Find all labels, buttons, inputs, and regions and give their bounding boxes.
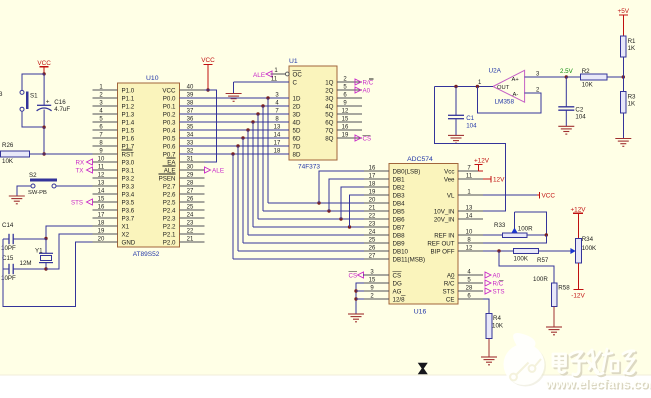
U10 pin 26 P2.5 stub [163, 196, 205, 206]
power VCC above U10 [201, 57, 215, 90]
svg-text:16: 16 [369, 165, 376, 171]
wire R33 right terminal [527, 234, 546, 236]
svg-text:74F373: 74F373 [298, 164, 320, 171]
wire U1 C to ground [233, 82, 235, 94]
wire P0.6 from U10 to U1 7D [180, 145, 290, 147]
op-amp U2A triangle [493, 70, 525, 102]
U10 pin 16 P3.6 stub [93, 204, 135, 214]
ground at R3 [615, 139, 631, 147]
svg-text:P2.0: P2.0 [163, 239, 176, 246]
svg-text:+: + [46, 99, 50, 106]
wire crystal bottom to X2 [46, 234, 93, 269]
svg-text:VCC: VCC [201, 57, 215, 64]
wire P0.1 vertical drop [262, 106, 264, 211]
wire P0.2 vertical drop [257, 114, 259, 219]
junction divider [622, 75, 625, 78]
junction C1 [454, 85, 457, 88]
svg-text:P3.7: P3.7 [122, 215, 135, 222]
R26 labels [2, 142, 14, 165]
svg-text:DB4: DB4 [393, 200, 406, 207]
ground at R58 [546, 327, 562, 335]
svg-text:20: 20 [98, 236, 105, 242]
svg-text:1D: 1D [293, 95, 301, 102]
svg-text:CS: CS [349, 272, 358, 279]
wire P0.2 from U10 to U1 3D [180, 113, 290, 115]
svg-text:15: 15 [98, 196, 105, 202]
svg-text:DB1: DB1 [393, 176, 406, 183]
wire S1 bottom [22, 111, 44, 127]
junction P0.6 [236, 144, 239, 147]
switch S2 [28, 172, 57, 196]
U10 pin 4 P1.3 stub [93, 108, 135, 118]
svg-text:R2: R2 [582, 68, 590, 75]
svg-text:R33: R33 [494, 222, 506, 229]
U16 pin 22 DB6 stub [364, 213, 405, 223]
svg-text:21: 21 [369, 205, 376, 211]
svg-text:EA: EA [167, 159, 176, 166]
svg-text:DB6: DB6 [393, 216, 406, 223]
svg-text:P3.4: P3.4 [122, 191, 135, 198]
svg-text:+5V: +5V [618, 8, 630, 15]
U1 pin 5 2Q stub [325, 84, 362, 94]
wire REF IN to R33 [483, 234, 503, 236]
svg-text:+12V: +12V [474, 157, 490, 164]
resistor R4 [486, 314, 492, 339]
junction crystal bottom [44, 267, 47, 270]
svg-text:16: 16 [342, 124, 349, 130]
svg-text:C1: C1 [466, 115, 474, 122]
svg-text:13: 13 [98, 180, 105, 186]
net label CS at U1 8Q [355, 135, 371, 143]
svg-text:ALE: ALE [164, 167, 176, 174]
U10 pin 14 P3.4 stub [93, 188, 135, 198]
svg-text:2D: 2D [293, 103, 301, 110]
U1 pin 19 8Q stub [325, 132, 362, 142]
svg-text:AG: AG [393, 288, 402, 295]
svg-text:U16: U16 [414, 309, 427, 316]
wire P0.2 to U16 DB6 [258, 218, 364, 220]
svg-text:11: 11 [271, 76, 278, 82]
svg-text:PSEN: PSEN [159, 175, 176, 182]
U16 pin 6 CE stub [446, 293, 483, 303]
svg-text:C2: C2 [575, 106, 583, 113]
svg-text:R/C: R/C [444, 280, 455, 287]
junction VCC pin40 [206, 88, 209, 91]
U10 pin 38 P0.1 stub [163, 100, 205, 110]
U1 pin 17 7D name [274, 140, 301, 150]
svg-text:P0.1: P0.1 [163, 103, 176, 110]
svg-text:P3.0: P3.0 [122, 159, 135, 166]
U1 pin 9 4Q stub [325, 100, 362, 110]
wire GND pin loop [3, 239, 93, 306]
svg-text:7D: 7D [293, 143, 301, 150]
wire P0.6 to U16 DB10 [238, 250, 364, 252]
U16 pin 21 DB5 stub [364, 205, 405, 215]
U10 pin 18 X1 stub [93, 220, 130, 230]
svg-text:16: 16 [98, 204, 105, 210]
U16 pin 17 DB1 stub [364, 173, 405, 183]
U10 pin 2 P1.1 stub [93, 92, 135, 102]
wire P0.7 vertical drop [232, 154, 234, 259]
wire R33 junction to REF OUT [483, 235, 546, 243]
svg-text:REF OUT: REF OUT [427, 240, 454, 247]
U10 pin 17 P3.7 stub [93, 212, 135, 222]
svg-text:OC: OC [293, 71, 303, 78]
power +5V [618, 8, 630, 36]
U1 pin 3 1D name [275, 92, 301, 102]
U16 pin 5 R/C stub [444, 277, 483, 287]
svg-text:U1: U1 [289, 58, 298, 65]
svg-text:C14: C14 [2, 222, 14, 229]
svg-text:P0.2: P0.2 [163, 111, 176, 118]
U1 pin 7 3D name [275, 108, 301, 118]
svg-text:P0.5: P0.5 [163, 135, 176, 142]
svg-text:14: 14 [98, 188, 105, 194]
U16 pin 9 AG stub [364, 285, 402, 295]
svg-text:P2.5: P2.5 [163, 199, 176, 206]
svg-text:12V: 12V [493, 177, 505, 184]
junction P0.1 [261, 104, 264, 107]
wire DG/AG/12-8 common [356, 283, 364, 314]
net label R/C at U16 [485, 280, 504, 288]
net label ALE at U1 [253, 71, 272, 79]
U16 pin 23 DB7 stub [364, 221, 405, 231]
power -12V below R34 [571, 290, 585, 300]
U16 pin 14 20V_IN stub [434, 213, 483, 223]
U10 pin 25 P2.4 stub [163, 204, 205, 214]
svg-text:DB8: DB8 [393, 232, 406, 239]
svg-text:CE: CE [446, 296, 455, 303]
svg-text:11: 11 [466, 173, 473, 179]
svg-text:P0.0: P0.0 [163, 95, 176, 102]
U10 pin 34 P0.5 stub [163, 132, 205, 142]
junction DB1 riser [327, 209, 330, 212]
svg-text:VL: VL [447, 192, 455, 199]
junction DB3 riser [348, 225, 351, 228]
U10 pin 20 GND stub [93, 236, 136, 246]
U10 pin 13 P3.3 stub [93, 180, 135, 190]
wire P0.0 to U16 DB4 [268, 202, 364, 204]
resistor R57 [514, 248, 539, 253]
svg-text:12/8: 12/8 [393, 296, 406, 303]
svg-text:25: 25 [187, 204, 194, 210]
svg-text:17: 17 [98, 212, 105, 218]
U10 pin 28 P2.7 stub [163, 180, 205, 190]
U16 pin 8 REF OUT stub [427, 237, 483, 247]
svg-text:15: 15 [342, 116, 349, 122]
U10 pin 7 P1.6 stub [93, 132, 135, 142]
wire P0.1 from U10 to U1 2D [180, 105, 290, 107]
junction P0.0 [266, 96, 269, 99]
junction P0.4 [246, 128, 249, 131]
U10 pin 24 P2.3 stub [163, 212, 205, 222]
U10 EA overline [167, 157, 176, 159]
power VCC at VL [537, 192, 555, 200]
wire CE to R4 [483, 299, 489, 314]
U1 pin 8 4D name [275, 116, 301, 126]
U10 pin 9 RST stub [93, 148, 135, 158]
svg-text:REF IN: REF IN [434, 232, 454, 239]
svg-text:P2.2: P2.2 [163, 223, 176, 230]
svg-text:1K: 1K [628, 101, 636, 108]
svg-text:7Q: 7Q [325, 127, 333, 134]
svg-text:8Q: 8Q [325, 135, 333, 142]
svg-text:100K: 100K [514, 255, 529, 262]
svg-text:12: 12 [342, 108, 349, 114]
svg-text:12M: 12M [20, 260, 32, 267]
svg-text:10K: 10K [2, 158, 14, 165]
watermark url text [545, 376, 651, 392]
R3 labels [628, 94, 636, 108]
wire riser to U16 DB0 [319, 171, 364, 203]
Y1 labels [20, 247, 44, 266]
wire P0.0 from U10 to U1 1D [180, 97, 290, 99]
R2 labels [582, 68, 594, 88]
svg-text:ADC574: ADC574 [407, 156, 433, 163]
svg-text:19: 19 [98, 228, 105, 234]
wire down to RST row [43, 127, 45, 154]
U10 pin 27 P2.6 stub [163, 188, 205, 198]
U10 pin 12 P3.2 stub [93, 172, 135, 182]
C16 labels [54, 99, 70, 113]
U16 pin 10 REF IN stub [434, 229, 483, 239]
wire R58 to ground [553, 307, 555, 328]
power +12V at U16 Vcc [474, 157, 490, 171]
ground at U16 DG/AG [348, 314, 364, 322]
svg-text:DB10: DB10 [393, 248, 409, 255]
svg-text:23: 23 [369, 221, 376, 227]
resistor R3 [620, 92, 626, 114]
net label ALE at U10 pin30 [205, 167, 225, 175]
svg-text:12: 12 [466, 245, 473, 251]
wire riser to U16 DB2 [341, 187, 364, 219]
U10 pin 11 P3.1 stub [93, 164, 135, 174]
ground at U1 C pin [226, 94, 242, 102]
crystal Y1 [39, 239, 53, 270]
svg-text:SW-PB: SW-PB [28, 190, 47, 196]
potentiometer R34 [570, 239, 581, 264]
svg-text:28: 28 [187, 180, 194, 186]
resistor R2 [581, 74, 608, 80]
svg-text:ALE: ALE [253, 72, 265, 79]
ground at C2 [558, 126, 574, 134]
svg-text:10: 10 [466, 229, 473, 235]
wire output to ADC 10V_IN [435, 87, 506, 212]
power +12V above R34 [570, 206, 586, 238]
U1 pin 15 6Q stub [325, 116, 362, 126]
wire S2 to P3.3 [56, 185, 93, 187]
svg-text:LM358: LM358 [495, 98, 515, 105]
svg-text:P0.6: P0.6 [163, 143, 176, 150]
junction R33 output [545, 233, 548, 236]
U10 pin 40 VCC stub [162, 84, 204, 94]
svg-text:15: 15 [369, 277, 376, 283]
svg-text:RX: RX [76, 159, 85, 166]
junction VCC/S1/C16 top [42, 72, 45, 75]
U16 pin 4 A0 stub [447, 269, 483, 279]
svg-text:P3.2: P3.2 [122, 175, 135, 182]
svg-text:-12V: -12V [571, 293, 585, 300]
U16 CS overline [393, 270, 402, 272]
chip U10 body [118, 83, 180, 247]
net label STS at U10 [71, 199, 93, 206]
wire R26 to RST pin [30, 153, 93, 155]
wire P0.7 to U16 DB11 [233, 258, 364, 260]
svg-text:17: 17 [369, 173, 376, 179]
svg-text:P3.5: P3.5 [122, 199, 135, 206]
junction DB2 riser [339, 217, 342, 220]
svg-text:STS: STS [71, 199, 83, 206]
C1 labels [466, 115, 477, 130]
U10 PSEN overline [159, 173, 176, 175]
svg-text:X1: X1 [122, 223, 130, 230]
U10 pin 32 P0.7 stub [163, 148, 205, 158]
U16 pin 3 CS stub [364, 269, 401, 279]
svg-text:30: 30 [187, 164, 194, 170]
svg-text:3D: 3D [293, 111, 301, 118]
svg-text:12: 12 [98, 172, 105, 178]
svg-text:P0.7: P0.7 [163, 151, 176, 158]
wire 2.5V node to R2 [566, 76, 580, 78]
svg-text:R4: R4 [493, 315, 501, 322]
R34 labels [582, 236, 597, 252]
junction S1/C16 bottom [42, 126, 45, 129]
U10 pin 15 P3.5 stub [93, 196, 135, 206]
svg-text:22: 22 [187, 228, 194, 234]
svg-text:VCC: VCC [37, 60, 51, 67]
svg-text:P1.6: P1.6 [122, 135, 135, 142]
wire P0.3 vertical drop [252, 122, 254, 227]
wire R3 to ground [622, 113, 624, 138]
svg-text:4D: 4D [293, 119, 301, 126]
U10 pin 1 P1.0 stub [93, 84, 135, 94]
svg-text:U10: U10 [146, 75, 159, 82]
soft boundary at schematic bottom edge [0, 374, 651, 376]
wire AG [356, 290, 364, 292]
chip U1 body [289, 66, 337, 160]
svg-text:GND: GND [122, 239, 136, 246]
svg-text:VCC: VCC [162, 87, 176, 94]
svg-text:VCC: VCC [542, 193, 556, 200]
U16 pin 28 STS stub [442, 285, 483, 295]
junction P0.7 [231, 152, 234, 155]
U16 R/C overline [451, 278, 455, 280]
svg-text:STS: STS [493, 289, 505, 296]
U1 OC overline [293, 69, 302, 71]
svg-text:22: 22 [369, 213, 376, 219]
U10 pin 35 P0.4 stub [163, 124, 205, 134]
svg-text:P1.7: P1.7 [122, 143, 135, 150]
svg-text:4Q: 4Q [325, 103, 333, 110]
svg-text:10K: 10K [582, 82, 594, 89]
svg-text:P2.7: P2.7 [163, 183, 176, 190]
ground at R4 [481, 357, 497, 365]
svg-text:P1.1: P1.1 [122, 95, 135, 102]
wire P0.1 to U16 DB5 [263, 210, 364, 212]
svg-text:DB2: DB2 [393, 184, 406, 191]
capacitor C15 [3, 264, 46, 274]
svg-text:100R: 100R [533, 276, 548, 283]
ground at S2 [9, 196, 25, 204]
svg-text:S1: S1 [30, 93, 38, 100]
wire P0.4 to U16 DB8 [248, 234, 364, 236]
wire op-amp pin3 to 2.5V node [525, 76, 567, 78]
svg-text:OUT: OUT [497, 85, 510, 91]
svg-text:24: 24 [187, 212, 194, 218]
junction AG [354, 289, 357, 292]
svg-text:27: 27 [369, 253, 376, 259]
wire P0.5 to U16 DB9 [243, 242, 364, 244]
svg-text:A0: A0 [363, 88, 371, 95]
svg-text:R57: R57 [537, 257, 549, 264]
svg-text:P3.1: P3.1 [122, 167, 135, 174]
junction P0.3 [251, 120, 254, 123]
U1 pin 18 8D name [274, 148, 301, 158]
wire P0.7 from U10 to U1 8D [180, 153, 290, 155]
svg-text:18: 18 [369, 181, 376, 187]
svg-text:100K: 100K [582, 245, 597, 252]
svg-text:14: 14 [466, 213, 473, 219]
svg-text:STS: STS [442, 288, 454, 295]
ground at C1 [448, 135, 464, 143]
net label CS at U16 [349, 272, 364, 280]
U10 ALE overline [163, 165, 176, 167]
wire op-amp output [435, 86, 494, 88]
svg-text:P3.6: P3.6 [122, 207, 135, 214]
svg-text:24: 24 [369, 229, 376, 235]
svg-text:A0: A0 [493, 273, 501, 280]
svg-text:P1.2: P1.2 [122, 103, 135, 110]
U10 RST overline [122, 149, 133, 151]
potentiometer R33 [503, 212, 528, 238]
svg-text:5D: 5D [293, 127, 301, 134]
U16 pin 25 DB9 stub [364, 237, 405, 247]
U10 pin 3 P1.2 stub [93, 100, 135, 110]
U10 pin 21 P2.0 stub [163, 236, 205, 246]
U10 pin 37 P0.2 stub [163, 108, 205, 118]
wire X1 to crystal [46, 226, 93, 239]
wire junction to R3 [622, 77, 624, 92]
U10 pin 30 ALE stub [164, 164, 205, 174]
U1 pin 12 5Q stub [325, 108, 362, 118]
R57 labels [514, 255, 549, 264]
svg-text:C: C [293, 79, 298, 86]
svg-text:20V_IN: 20V_IN [434, 216, 455, 223]
U10 pin 23 P2.2 stub [163, 220, 205, 230]
svg-text:100R: 100R [518, 226, 533, 233]
wire CS label to pin [363, 274, 364, 276]
wire BIP OFF to R57 [483, 250, 514, 252]
svg-text:40: 40 [187, 84, 194, 90]
junction P0.2 [256, 112, 259, 115]
svg-text:A+: A+ [512, 77, 520, 83]
U16 pin 18 DB2 stub [364, 181, 405, 191]
R33 labels [494, 222, 533, 233]
svg-text:19: 19 [342, 132, 349, 138]
svg-text:P2.3: P2.3 [163, 215, 176, 222]
wire VL to VCC port [483, 194, 537, 196]
svg-text:31: 31 [187, 156, 194, 162]
wire BIP OFF junction to R58 [499, 251, 554, 283]
svg-text:X2: X2 [122, 231, 130, 238]
wire P0.4 from U10 to U1 5D [180, 129, 290, 131]
U10 pin 22 P2.1 stub [163, 228, 205, 238]
wire top rail to S1 [22, 74, 44, 91]
svg-text:104: 104 [466, 122, 477, 129]
wire P0.0 vertical drop [267, 98, 269, 203]
chip U16 body [389, 164, 458, 305]
svg-text:C16: C16 [54, 99, 66, 106]
